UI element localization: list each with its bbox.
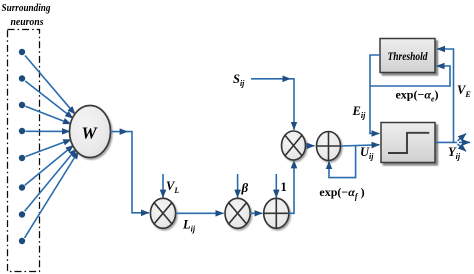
svg-text:Sij: Sij bbox=[233, 72, 245, 88]
svg-text:Surrounding: Surrounding bbox=[2, 2, 51, 14]
wire: Y output bbox=[436, 141, 458, 143]
svg-text:Lij: Lij bbox=[182, 218, 196, 234]
wire: corner down to first multiplier bbox=[126, 132, 149, 213]
svg-text:W: W bbox=[81, 124, 98, 143]
weight matrix ellipse W bbox=[70, 106, 111, 158]
svg-text:neurons: neurons bbox=[11, 16, 44, 28]
svg-text:VL: VL bbox=[166, 179, 179, 195]
synapse arrow 1 bbox=[25, 56, 75, 115]
neuron dot 1 bbox=[19, 49, 25, 55]
wire M3 to A2 with arrow bbox=[306, 145, 315, 147]
svg-text:1: 1 bbox=[281, 180, 287, 194]
wire A1 up to modulation multiplier bbox=[289, 160, 295, 213]
synapse arrow 2 bbox=[25, 81, 73, 118]
svg-text:Eij: Eij bbox=[352, 104, 367, 120]
svg-text:β: β bbox=[241, 180, 249, 195]
step glyph bbox=[388, 133, 429, 153]
neuron dot 5 bbox=[19, 155, 25, 161]
neuron dot 8 bbox=[19, 238, 25, 244]
V_E feedback wire from output up into Threshold bbox=[437, 49, 454, 142]
input constant 1 arrow bbox=[275, 174, 277, 198]
synapse arrow 3 bbox=[25, 106, 71, 124]
wire: threshold output E_ij down to step box bbox=[370, 55, 380, 134]
adder A2 (U accumulator) bbox=[317, 132, 341, 161]
synapse arrow 6 bbox=[25, 145, 74, 185]
svg-text:VE: VE bbox=[457, 83, 471, 99]
Threshold box bbox=[380, 39, 435, 73]
multiplier M1 X glyph bbox=[154, 203, 172, 224]
adder A1 (1 + beta L) bbox=[264, 198, 289, 228]
svg-text:exp(−αf ): exp(−αf ) bbox=[319, 185, 364, 201]
svg-text:exp(−αe): exp(−αe) bbox=[395, 88, 438, 104]
svg-text:Uij: Uij bbox=[360, 145, 374, 161]
output fan arrow down-right bbox=[458, 144, 467, 151]
adder A2 plus glyph bbox=[317, 132, 340, 159]
synapse arrow 7 bbox=[25, 149, 77, 212]
neuron dot 3 bbox=[19, 102, 25, 108]
wire S corner down into modulation multiplier bbox=[289, 79, 294, 130]
output fan arrow up-right bbox=[458, 134, 467, 141]
multiplier M1 (feeding: W x V_L) bbox=[150, 198, 175, 228]
adder A1 plus glyph bbox=[264, 199, 288, 228]
synapse arrow 8 bbox=[25, 151, 79, 238]
neuron dot 4 bbox=[19, 128, 25, 134]
multiplier M3 X glyph bbox=[285, 135, 302, 155]
neuron dot 6 bbox=[19, 184, 25, 190]
wire M2 to A1 with arrow bbox=[250, 212, 262, 214]
multiplier M2 (beta) bbox=[225, 198, 250, 228]
input beta arrow bbox=[237, 174, 239, 198]
feedback loop exp(-alpha_f) into A2 bbox=[329, 146, 356, 178]
multiplier M3 (modulation S x (1+bL)) bbox=[282, 131, 306, 160]
wire A2 to step box (U_ij) bbox=[341, 145, 380, 146]
output fan arrow right bbox=[459, 141, 470, 143]
wire M1 to M2 with arrow bbox=[176, 212, 224, 214]
step function box (pulse generator) bbox=[381, 123, 435, 163]
wire S input with arrow bbox=[251, 78, 291, 80]
wire: W output with arrow bbox=[111, 131, 128, 133]
dashed boundary box: surrounding neurons region bbox=[8, 30, 40, 272]
input V_L arrow bbox=[162, 174, 164, 198]
synapse arrow 4 bbox=[26, 130, 71, 132]
svg-text:Threshold: Threshold bbox=[388, 49, 429, 63]
svg-text:Yij: Yij bbox=[448, 145, 461, 161]
neuron dot 2 bbox=[19, 75, 25, 81]
exp(-alpha_e) decay loop into Threshold bbox=[370, 66, 450, 86]
synapse arrow 5 bbox=[25, 140, 71, 157]
multiplier M2 X glyph bbox=[229, 203, 247, 224]
neuron dot 7 bbox=[19, 211, 25, 217]
